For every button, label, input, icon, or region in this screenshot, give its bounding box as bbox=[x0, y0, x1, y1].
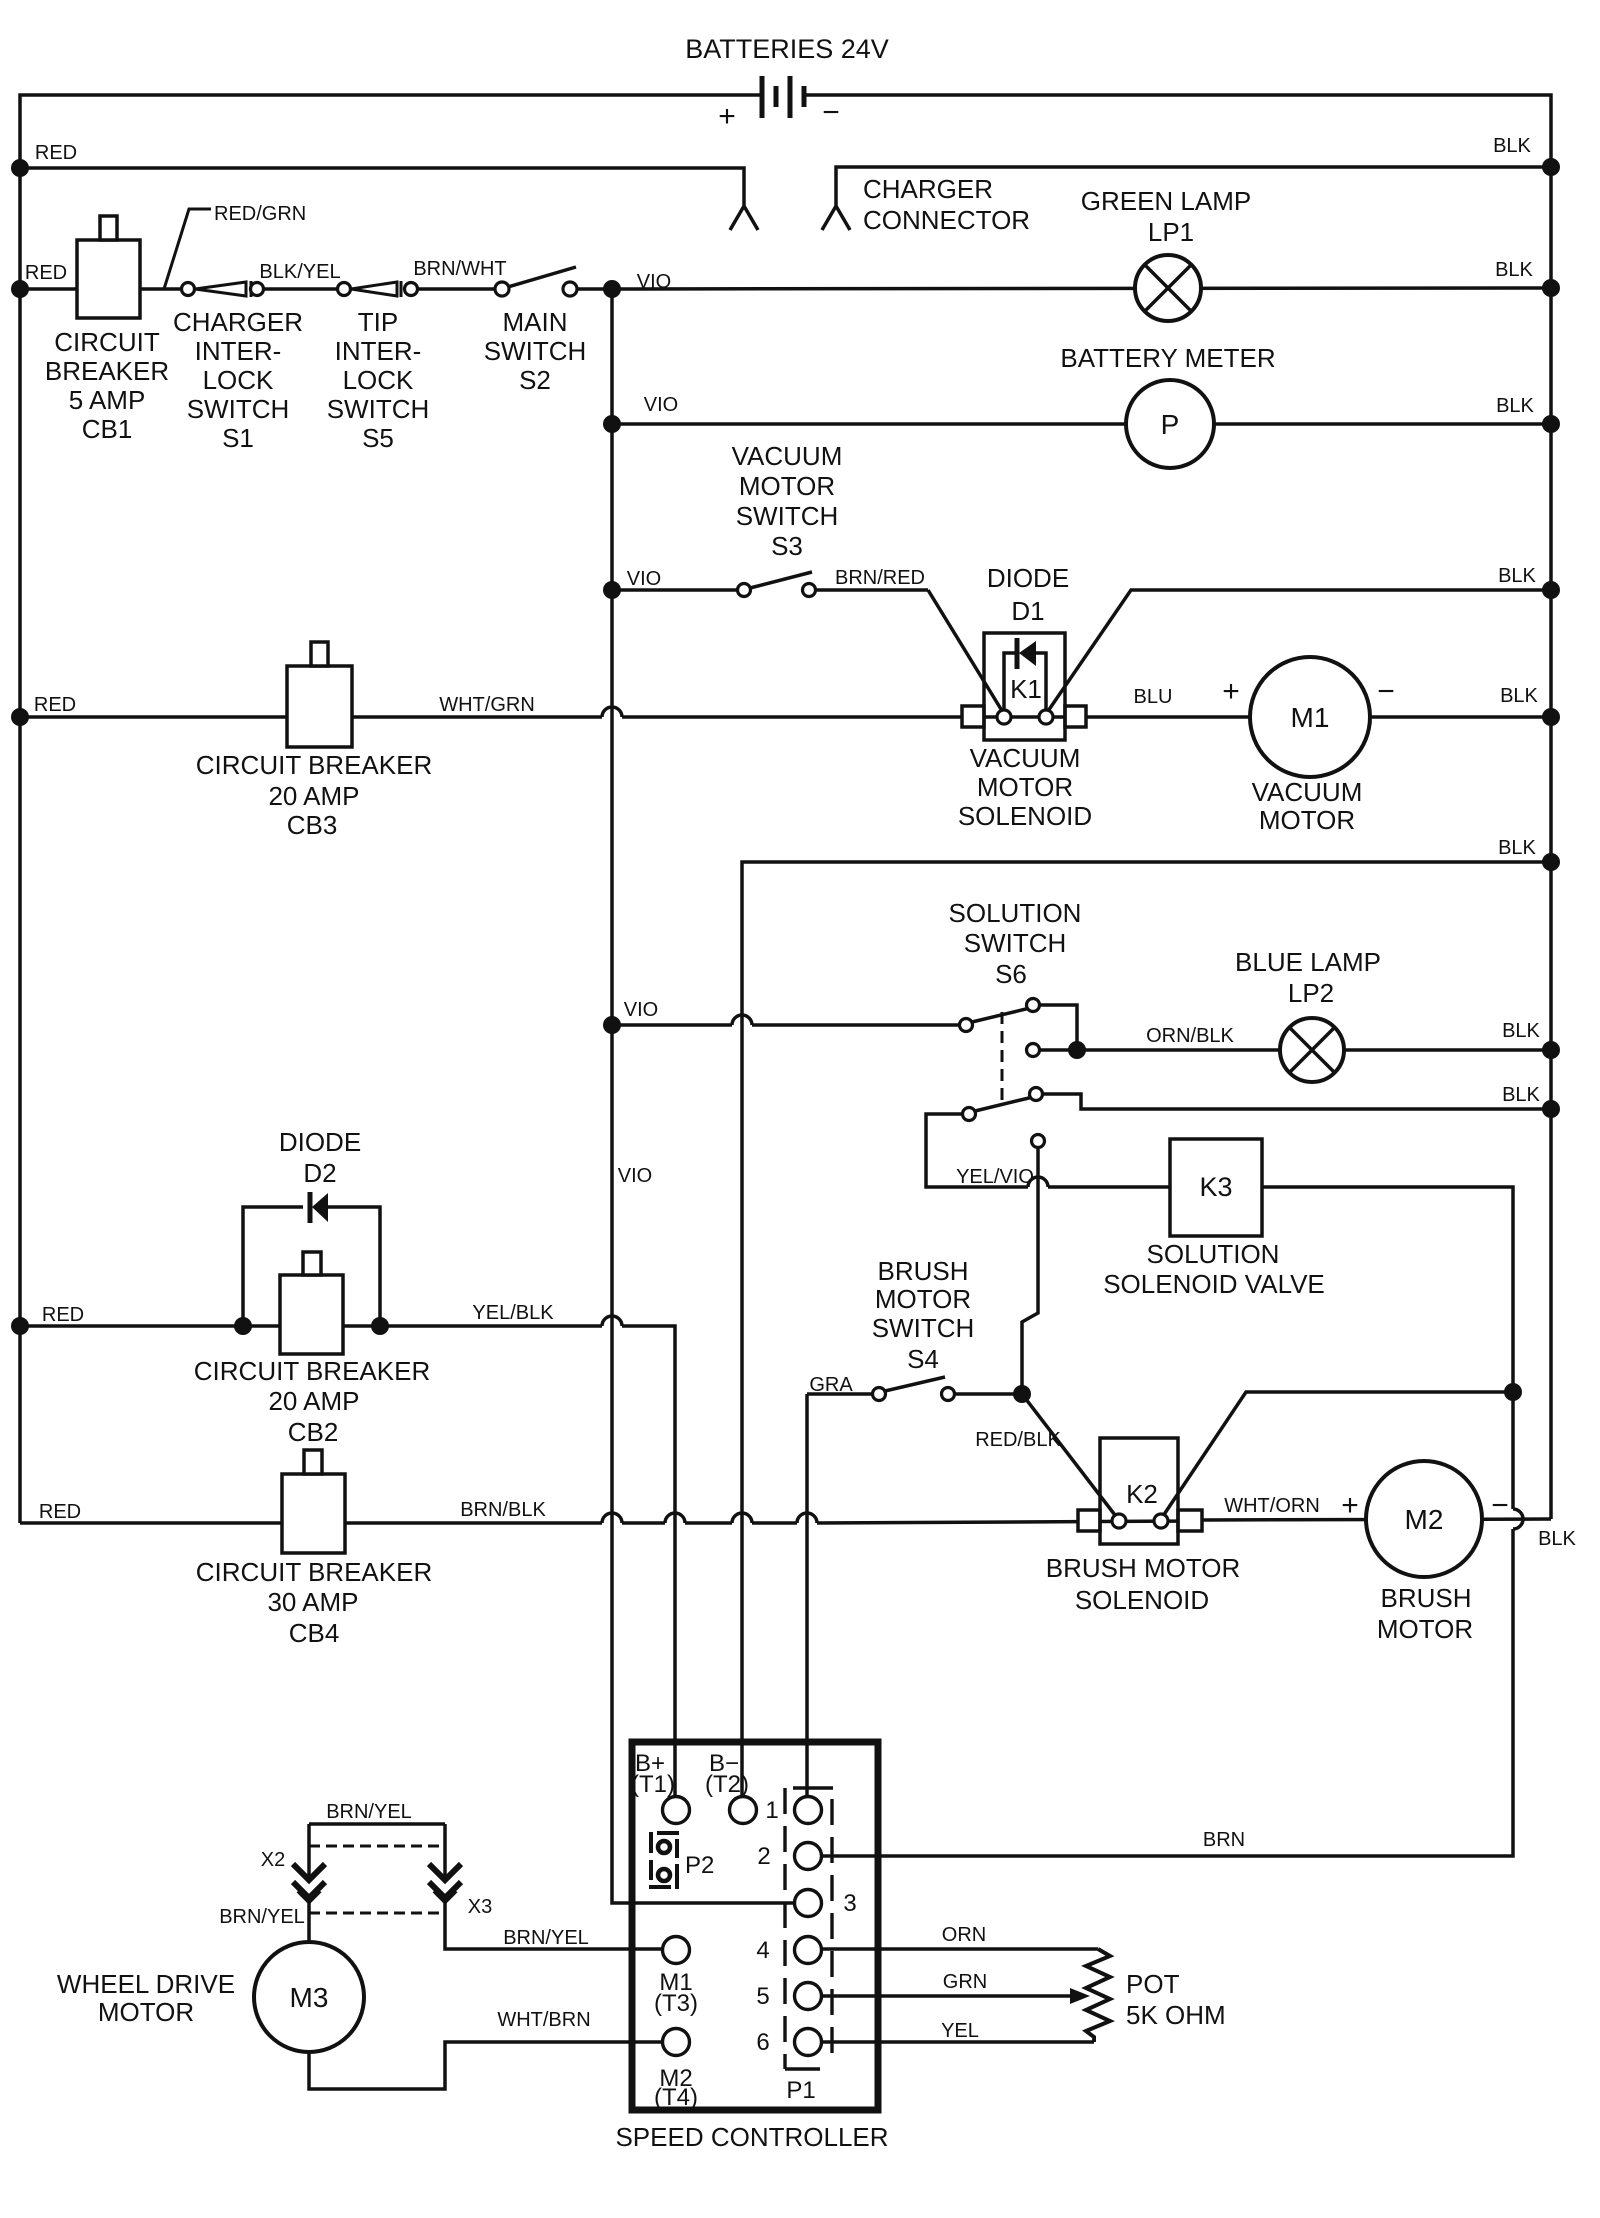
svg-text:WHT/ORN: WHT/ORN bbox=[1224, 1495, 1320, 1517]
svg-text:P1: P1 bbox=[786, 2077, 815, 2104]
svg-text:S1: S1 bbox=[222, 423, 254, 453]
svg-text:CB1: CB1 bbox=[82, 414, 133, 444]
svg-text:P: P bbox=[1161, 409, 1180, 440]
svg-text:BRN/YEL: BRN/YEL bbox=[326, 1801, 412, 1823]
svg-text:CIRCUIT: CIRCUIT bbox=[54, 327, 160, 357]
svg-text:VACUUM: VACUUM bbox=[732, 441, 843, 471]
svg-text:SWITCH: SWITCH bbox=[964, 928, 1067, 958]
svg-text:20 AMP: 20 AMP bbox=[268, 781, 359, 811]
svg-text:BATTERIES 24V: BATTERIES 24V bbox=[685, 34, 889, 64]
svg-text:S5: S5 bbox=[362, 423, 394, 453]
svg-text:RED: RED bbox=[34, 694, 76, 716]
svg-text:BRN/WHT: BRN/WHT bbox=[413, 258, 506, 280]
svg-text:BATTERY METER: BATTERY METER bbox=[1060, 343, 1275, 373]
svg-text:BLK: BLK bbox=[1538, 1528, 1576, 1550]
svg-text:LOCK: LOCK bbox=[343, 365, 414, 395]
svg-text:INTER-: INTER- bbox=[195, 336, 282, 366]
svg-text:CHARGER: CHARGER bbox=[173, 307, 303, 337]
svg-text:BRN/YEL: BRN/YEL bbox=[219, 1906, 305, 1928]
svg-text:WHT/BRN: WHT/BRN bbox=[497, 2009, 590, 2031]
svg-text:VIO: VIO bbox=[637, 271, 671, 293]
svg-text:M2: M2 bbox=[1405, 1504, 1444, 1535]
svg-text:SWITCH: SWITCH bbox=[872, 1313, 975, 1343]
svg-text:BRN/RED: BRN/RED bbox=[835, 567, 925, 589]
svg-text:RED: RED bbox=[39, 1501, 81, 1523]
svg-text:MOTOR: MOTOR bbox=[977, 772, 1073, 802]
svg-text:BRUSH MOTOR: BRUSH MOTOR bbox=[1046, 1553, 1241, 1583]
svg-text:2: 2 bbox=[757, 1843, 770, 1870]
svg-text:RED/BLK: RED/BLK bbox=[975, 1429, 1061, 1451]
svg-text:YEL/BLK: YEL/BLK bbox=[472, 1302, 554, 1324]
svg-text:(T1): (T1) bbox=[631, 1771, 675, 1798]
svg-text:BRN/BLK: BRN/BLK bbox=[460, 1499, 546, 1521]
svg-text:MOTOR: MOTOR bbox=[875, 1284, 971, 1314]
svg-text:BLUE LAMP: BLUE LAMP bbox=[1235, 947, 1381, 977]
svg-text:GREEN LAMP: GREEN LAMP bbox=[1081, 186, 1252, 216]
svg-text:CIRCUIT BREAKER: CIRCUIT BREAKER bbox=[196, 1557, 432, 1587]
svg-text:ORN/BLK: ORN/BLK bbox=[1146, 1025, 1234, 1047]
svg-text:SWITCH: SWITCH bbox=[327, 394, 430, 424]
svg-text:BRUSH: BRUSH bbox=[877, 1256, 968, 1286]
svg-text:BLK: BLK bbox=[1496, 395, 1534, 417]
svg-text:BLK: BLK bbox=[1502, 1084, 1540, 1106]
svg-text:(T3): (T3) bbox=[654, 1990, 698, 2017]
svg-text:K1: K1 bbox=[1010, 674, 1042, 704]
svg-text:RED/GRN: RED/GRN bbox=[214, 203, 306, 225]
svg-text:LP1: LP1 bbox=[1148, 217, 1194, 247]
svg-text:VIO: VIO bbox=[624, 999, 658, 1021]
svg-text:S6: S6 bbox=[995, 959, 1027, 989]
svg-text:1: 1 bbox=[765, 1797, 778, 1824]
svg-text:INTER-: INTER- bbox=[335, 336, 422, 366]
svg-text:DIODE: DIODE bbox=[987, 563, 1069, 593]
svg-text:CB4: CB4 bbox=[289, 1618, 340, 1648]
svg-text:BLK: BLK bbox=[1495, 259, 1533, 281]
svg-text:TIP: TIP bbox=[358, 307, 398, 337]
svg-text:X2: X2 bbox=[261, 1849, 285, 1871]
svg-text:+: + bbox=[1222, 675, 1240, 708]
svg-text:CONNECTOR: CONNECTOR bbox=[863, 205, 1030, 235]
svg-text:S3: S3 bbox=[771, 531, 803, 561]
svg-text:BLK: BLK bbox=[1498, 565, 1536, 587]
svg-text:SOLENOID: SOLENOID bbox=[958, 801, 1092, 831]
svg-text:30 AMP: 30 AMP bbox=[267, 1587, 358, 1617]
svg-text:CIRCUIT BREAKER: CIRCUIT BREAKER bbox=[196, 750, 432, 780]
svg-text:S2: S2 bbox=[519, 365, 551, 395]
svg-text:SPEED CONTROLLER: SPEED CONTROLLER bbox=[615, 2122, 888, 2152]
svg-text:−: − bbox=[1491, 1489, 1509, 1522]
svg-text:4: 4 bbox=[756, 1937, 769, 1964]
svg-text:D1: D1 bbox=[1011, 596, 1044, 626]
svg-text:3: 3 bbox=[843, 1890, 856, 1917]
svg-text:SOLUTION: SOLUTION bbox=[949, 898, 1082, 928]
svg-text:P2: P2 bbox=[685, 1852, 714, 1879]
svg-text:BLK: BLK bbox=[1498, 837, 1536, 859]
svg-text:MOTOR: MOTOR bbox=[1377, 1614, 1473, 1644]
svg-text:5K OHM: 5K OHM bbox=[1126, 2000, 1226, 2030]
svg-text:−: − bbox=[1377, 675, 1395, 708]
svg-text:BLK: BLK bbox=[1502, 1020, 1540, 1042]
svg-text:CHARGER: CHARGER bbox=[863, 174, 993, 204]
svg-text:SWITCH: SWITCH bbox=[736, 501, 839, 531]
svg-text:LOCK: LOCK bbox=[203, 365, 274, 395]
svg-text:CB3: CB3 bbox=[287, 810, 338, 840]
svg-text:POT: POT bbox=[1126, 1969, 1180, 1999]
svg-text:K3: K3 bbox=[1199, 1172, 1232, 1202]
svg-text:VIO: VIO bbox=[644, 394, 678, 416]
svg-text:M3: M3 bbox=[290, 1982, 329, 2013]
svg-text:LP2: LP2 bbox=[1288, 978, 1334, 1008]
svg-text:5 AMP: 5 AMP bbox=[69, 385, 146, 415]
svg-text:ORN: ORN bbox=[942, 1924, 986, 1946]
svg-text:SOLENOID: SOLENOID bbox=[1075, 1585, 1209, 1615]
svg-text:RED: RED bbox=[35, 142, 77, 164]
svg-text:BRN: BRN bbox=[1203, 1829, 1245, 1851]
svg-text:WHEEL DRIVE: WHEEL DRIVE bbox=[57, 1969, 235, 1999]
svg-text:S4: S4 bbox=[907, 1344, 939, 1374]
svg-text:WHT/GRN: WHT/GRN bbox=[439, 694, 535, 716]
svg-text:YEL: YEL bbox=[941, 2020, 979, 2042]
svg-text:+: + bbox=[718, 100, 736, 133]
svg-text:BRUSH: BRUSH bbox=[1380, 1583, 1471, 1613]
svg-text:GRA: GRA bbox=[809, 1374, 853, 1396]
svg-text:SOLENOID VALVE: SOLENOID VALVE bbox=[1103, 1269, 1325, 1299]
svg-text:20 AMP: 20 AMP bbox=[268, 1386, 359, 1416]
svg-text:CB2: CB2 bbox=[288, 1417, 339, 1447]
svg-text:VACUUM: VACUUM bbox=[970, 743, 1081, 773]
svg-text:VACUUM: VACUUM bbox=[1252, 777, 1363, 807]
svg-text:CIRCUIT BREAKER: CIRCUIT BREAKER bbox=[194, 1356, 430, 1386]
svg-text:−: − bbox=[822, 96, 840, 129]
svg-text:MOTOR: MOTOR bbox=[98, 1997, 194, 2027]
svg-text:RED: RED bbox=[25, 262, 67, 284]
svg-text:X3: X3 bbox=[468, 1896, 492, 1918]
svg-text:+: + bbox=[1341, 1489, 1359, 1522]
svg-text:D2: D2 bbox=[303, 1158, 336, 1188]
svg-text:BLK/YEL: BLK/YEL bbox=[259, 261, 340, 283]
svg-text:RED: RED bbox=[42, 1304, 84, 1326]
svg-text:YEL/VIO: YEL/VIO bbox=[956, 1166, 1034, 1188]
svg-text:(T2): (T2) bbox=[705, 1771, 749, 1798]
svg-text:5: 5 bbox=[756, 1983, 769, 2010]
svg-text:(T4): (T4) bbox=[654, 2084, 698, 2111]
svg-text:GRN: GRN bbox=[943, 1971, 987, 1993]
svg-text:BLU: BLU bbox=[1134, 686, 1173, 708]
svg-text:BLK: BLK bbox=[1500, 685, 1538, 707]
svg-text:VIO: VIO bbox=[627, 568, 661, 590]
svg-text:SWITCH: SWITCH bbox=[484, 336, 587, 366]
svg-text:BLK: BLK bbox=[1493, 135, 1531, 157]
svg-text:SWITCH: SWITCH bbox=[187, 394, 290, 424]
svg-text:BRN/YEL: BRN/YEL bbox=[503, 1927, 589, 1949]
svg-text:MOTOR: MOTOR bbox=[739, 471, 835, 501]
svg-text:6: 6 bbox=[756, 2029, 769, 2056]
svg-text:VIO: VIO bbox=[618, 1165, 652, 1187]
svg-text:SOLUTION: SOLUTION bbox=[1147, 1239, 1280, 1269]
svg-text:K2: K2 bbox=[1126, 1479, 1158, 1509]
svg-text:MOTOR: MOTOR bbox=[1259, 805, 1355, 835]
svg-text:M1: M1 bbox=[1291, 702, 1330, 733]
svg-text:BREAKER: BREAKER bbox=[45, 356, 169, 386]
svg-text:MAIN: MAIN bbox=[503, 307, 568, 337]
svg-text:DIODE: DIODE bbox=[279, 1127, 361, 1157]
